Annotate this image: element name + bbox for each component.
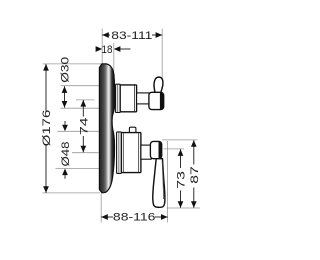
bottom cylinder ring lines [118,133,120,173]
wire extension line y=85.7 (O30 top) [61,85,101,87]
dimension 18 [96,44,131,56]
escutcheon plate (side view) [99,64,115,193]
top control: cylinder sleeve [116,84,121,112]
wire extension line x=167.6 (lever tip) [167,141,169,223]
svg-text:Ø30: Ø30 [60,57,72,83]
top handle hub dark face [160,92,164,109]
dimension 74 [78,100,90,152]
wire extension line y=131.3 (O48 top) [58,130,100,132]
svg-text:73: 73 [176,171,188,189]
top handle hub [149,92,164,109]
wire extension line y=99.9 (74 top) [76,99,95,101]
bottom handle hub dark face [159,141,162,158]
dimension 88-116 [101,212,167,224]
bottom lever arm [153,159,165,208]
wire extension line y=139.9 (87 top) [162,139,198,141]
dimension O176 [41,64,53,193]
wire extension line y=168.5 (O48 bottom) [56,168,100,170]
bottom control: safety stop tab [129,127,136,134]
bottom control: cylinder sleeve [117,132,122,174]
wire extension line y=208 (lever bottom) [167,207,201,209]
dimension O30 [60,57,72,108]
svg-text:87: 87 [189,166,201,184]
dimension 73 [176,149,188,208]
dimension 83-111 [102,30,162,42]
wire extension line y=192.9 (plate bottom) [43,192,101,194]
wire extension line y=63.9 (plate top) [43,63,102,65]
bottom handle hub [150,141,161,158]
svg-text:18: 18 [102,44,113,56]
wire extension line x=162.2 (83-111 right) [161,29,163,89]
wire extension line y=152.7 (74 bottom) [72,152,99,154]
top cylinder ring lines [117,85,119,112]
wire extension line y=108.2 (O30 bottom) [61,107,101,109]
top handle lever bulb [153,77,163,94]
wire extension line x=102.2 top [101,29,103,64]
svg-text:83-111: 83-111 [111,30,152,42]
dimension 87 [189,140,201,208]
svg-text:88-116: 88-116 [113,212,156,224]
wire extension line y=148.9 (73 top) [164,148,185,150]
svg-text:Ø48: Ø48 [60,142,72,167]
wire extension line x=113.8 (18 right) [113,43,115,72]
dimension O48 [60,121,72,179]
top control: stem [137,93,150,104]
bottom control: stem [141,145,151,159]
wire extension line x=101.2 bottom [100,194,102,223]
svg-text:Ø176: Ø176 [41,110,53,147]
svg-text:74: 74 [78,117,90,135]
